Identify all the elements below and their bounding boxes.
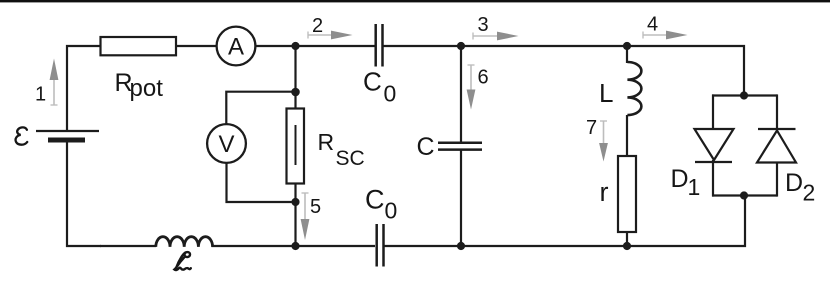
svg-text:R: R <box>318 129 335 155</box>
arrow 6 current <box>467 65 476 110</box>
node V-bottom junction <box>291 198 299 206</box>
voltmeter V bottom wire <box>227 163 292 202</box>
node 2 <box>291 42 299 50</box>
wire D1 top lead <box>712 94 714 130</box>
wire R_SC bottom lead <box>294 183 296 246</box>
node r bottom <box>623 242 631 250</box>
label R_pot <box>115 69 164 102</box>
capacitor C0 top <box>376 24 383 67</box>
battery E source plates <box>36 131 99 140</box>
svg-text:D: D <box>671 165 689 193</box>
wire C0 top to node 3 <box>384 45 462 47</box>
svg-text:SC: SC <box>336 147 365 170</box>
diode bottom rail <box>712 194 777 196</box>
capacitor C <box>438 143 482 150</box>
svg-text:3: 3 <box>477 14 488 36</box>
svg-text:5: 5 <box>310 196 321 218</box>
arrow 1 current <box>50 59 59 106</box>
wire node 3 to node 4 <box>461 45 627 47</box>
diode D1 <box>695 129 734 162</box>
svg-text:1: 1 <box>688 174 701 200</box>
node diode bottom <box>740 191 748 199</box>
node C bottom <box>457 242 465 250</box>
arrow 5 current <box>301 193 310 240</box>
label script L <box>174 252 190 270</box>
node diode top <box>740 91 748 99</box>
wire D2 top lead <box>776 94 778 130</box>
voltmeter V <box>207 124 246 163</box>
node 3 <box>457 42 465 50</box>
wire D2 bottom lead <box>776 163 778 197</box>
diode top rail <box>712 94 777 96</box>
svg-text:L: L <box>599 78 613 108</box>
wire L to r <box>626 115 628 156</box>
svg-text:C: C <box>363 67 382 97</box>
arrow 4 current <box>643 31 688 40</box>
svg-text:4: 4 <box>647 14 658 36</box>
svg-text:1: 1 <box>35 84 46 106</box>
arrow 7 current <box>599 121 608 162</box>
node V-top junction <box>291 88 300 97</box>
wire left vertical lower <box>67 140 101 246</box>
label D2 <box>785 169 815 206</box>
wire bottom middle-right with corner up <box>385 196 746 246</box>
svg-text:r: r <box>600 177 609 207</box>
svg-text:C: C <box>365 185 385 215</box>
resistor R_SC body <box>287 109 305 184</box>
wire r bottom lead <box>626 232 628 246</box>
svg-text:6: 6 <box>477 67 488 89</box>
svg-text:7: 7 <box>586 117 597 139</box>
node R_SC bottom <box>291 242 299 250</box>
wire node 4 to top-right corner down to diode rail <box>627 46 744 96</box>
svg-text:2: 2 <box>803 180 816 206</box>
label C0 top <box>363 67 396 107</box>
svg-text:2: 2 <box>312 15 323 37</box>
voltmeter V top wire <box>226 92 291 124</box>
label C0 bottom <box>365 185 397 224</box>
wire L top lead <box>626 46 628 63</box>
label R_SC <box>318 129 365 170</box>
svg-text:pot: pot <box>130 75 164 102</box>
arrow 2 current <box>308 31 353 40</box>
svg-text:D: D <box>785 169 803 197</box>
wire R_pot to ammeter <box>176 45 217 47</box>
wire C branch bottom lead <box>460 150 462 246</box>
ammeter A <box>217 27 256 66</box>
wire R_SC top lead <box>294 46 296 109</box>
svg-text:0: 0 <box>385 198 398 224</box>
wire C branch top lead <box>460 46 462 142</box>
svg-text:A: A <box>228 34 244 61</box>
diode D2 <box>757 129 796 163</box>
label EMF script E <box>16 127 28 144</box>
svg-text:C: C <box>417 133 435 161</box>
arrow 3 current <box>473 32 519 41</box>
label D1 <box>671 165 701 200</box>
capacitor C0 bottom <box>377 224 384 267</box>
wire bottom-left horizontal <box>100 245 156 247</box>
wire top-left corner <box>67 46 101 131</box>
wire ammeter to node 2 <box>255 45 375 47</box>
svg-text:0: 0 <box>384 81 397 107</box>
wire coil to C0 bottom <box>211 245 375 247</box>
inductor script-L coil <box>156 237 213 247</box>
svg-text:V: V <box>218 131 234 158</box>
resistor R_pot <box>101 37 177 55</box>
inductor L coil <box>627 62 641 115</box>
node 4 <box>623 42 631 50</box>
wire D1 bottom lead <box>712 160 714 197</box>
resistor r body <box>618 156 636 232</box>
